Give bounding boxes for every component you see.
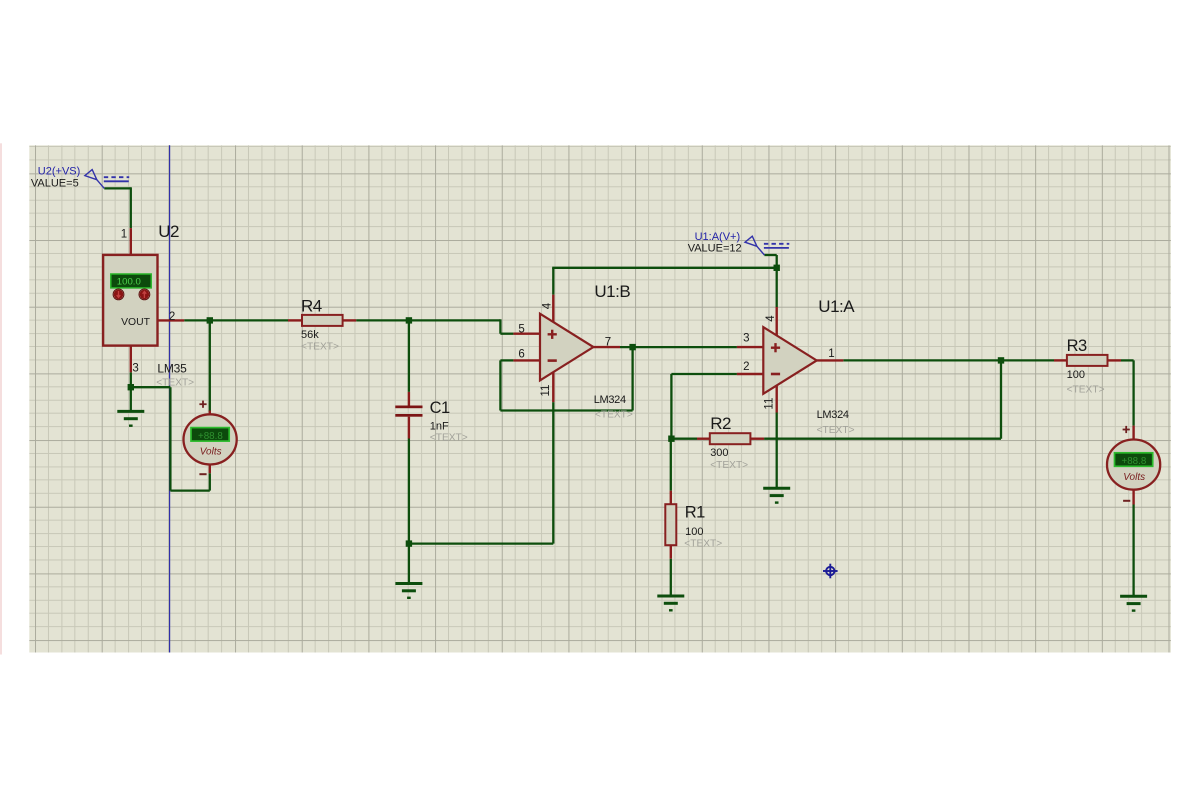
svg-text:U1:B: U1:B: [594, 282, 630, 301]
svg-text:<TEXT>: <TEXT>: [430, 432, 468, 443]
svg-text:6: 6: [518, 349, 524, 361]
svg-text:Volts: Volts: [200, 447, 222, 458]
svg-text:3: 3: [743, 333, 749, 345]
svg-text:U2(+VS): U2(+VS): [38, 166, 81, 178]
svg-text:2: 2: [743, 361, 749, 373]
svg-text:<TEXT>: <TEXT>: [301, 341, 339, 352]
svg-text:100.0: 100.0: [117, 276, 141, 287]
svg-text:<TEXT>: <TEXT>: [684, 539, 722, 550]
svg-text:R4: R4: [301, 296, 322, 315]
svg-text:U1:A(V+): U1:A(V+): [695, 231, 741, 243]
svg-text:<TEXT>: <TEXT>: [817, 425, 855, 436]
svg-text:LM324: LM324: [817, 409, 849, 421]
svg-text:C1: C1: [430, 399, 450, 417]
svg-text:LM324: LM324: [594, 394, 626, 406]
svg-text:4: 4: [542, 302, 554, 309]
svg-text:100: 100: [685, 526, 703, 538]
svg-text:R1: R1: [685, 503, 705, 521]
svg-text:5: 5: [518, 324, 524, 336]
svg-text:R3: R3: [1067, 337, 1087, 355]
svg-text:<TEXT>: <TEXT>: [1067, 384, 1105, 395]
svg-text:VALUE=5: VALUE=5: [31, 178, 79, 190]
svg-text:11: 11: [763, 398, 775, 410]
svg-text:4: 4: [765, 315, 777, 322]
svg-text:11: 11: [540, 385, 552, 397]
svg-text:7: 7: [605, 337, 611, 349]
svg-text:+88.8: +88.8: [198, 431, 223, 442]
svg-text:U1:A: U1:A: [818, 297, 855, 316]
svg-text:U2: U2: [158, 222, 179, 241]
svg-text:Volts: Volts: [1123, 472, 1145, 483]
svg-text:R2: R2: [710, 414, 731, 433]
svg-text:VOUT: VOUT: [121, 317, 151, 328]
svg-text:3: 3: [132, 363, 138, 375]
svg-text:100: 100: [1067, 369, 1085, 381]
svg-text:<TEXT>: <TEXT>: [710, 460, 748, 471]
svg-text:2: 2: [169, 311, 175, 323]
svg-text:1nF: 1nF: [430, 421, 449, 433]
svg-text:56k: 56k: [301, 329, 319, 341]
svg-text:1: 1: [121, 229, 127, 241]
svg-text:<TEXT>: <TEXT>: [595, 410, 633, 421]
svg-text:300: 300: [710, 447, 728, 459]
svg-text:<TEXT>: <TEXT>: [156, 378, 194, 389]
svg-text:+88.8: +88.8: [1122, 456, 1147, 467]
svg-text:VALUE=12: VALUE=12: [688, 243, 742, 255]
svg-text:1: 1: [828, 348, 834, 360]
svg-text:LM35: LM35: [157, 362, 187, 376]
